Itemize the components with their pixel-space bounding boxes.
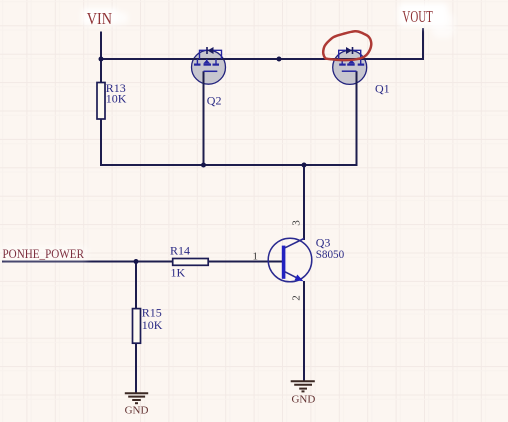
net label PONHE_POWER	[0, 246, 88, 261]
svg-text:GND: GND	[125, 405, 149, 417]
wire Q2 gate lead	[203, 71, 205, 165]
svg-text:1K: 1K	[171, 266, 186, 280]
wire VOUT vertical	[422, 28, 424, 60]
svg-text:GND: GND	[291, 394, 315, 406]
wire Q3 emitter to GND	[303, 281, 305, 381]
junction dot base/R15	[134, 259, 139, 264]
transistor Q1 body circle	[333, 50, 367, 84]
wire R15 to GND	[135, 343, 137, 393]
svg-text:R14: R14	[170, 244, 190, 258]
wire PONHE_POWER to R14	[2, 261, 173, 263]
junction dot Q3 collector on mid bus	[302, 163, 307, 168]
wire R13 bottom lead	[100, 119, 102, 166]
wire top bus VIN to VOUT	[100, 58, 423, 60]
svg-text:VIN: VIN	[87, 9, 112, 28]
white halo behind VOUT	[398, 3, 454, 38]
transistor Q2 internals (P-MOSFET)	[194, 47, 222, 108]
transistor Q3 (NPN S8050)	[268, 236, 344, 282]
svg-text:VOUT: VOUT	[402, 7, 433, 26]
svg-text:PONHE_POWER: PONHE_POWER	[3, 246, 85, 261]
ground symbol right	[291, 381, 315, 391]
wire Q3 collector lead	[303, 165, 305, 240]
wire Q1 gate lead	[356, 71, 358, 166]
ground symbol left	[125, 393, 148, 403]
wire mid bus	[100, 164, 357, 166]
wire down to R15	[135, 262, 137, 309]
transistor Q1 internals (P-MOSFET, mirrored)	[339, 47, 390, 96]
resistor R15	[133, 306, 163, 344]
svg-text:2: 2	[291, 295, 303, 301]
red annotation circle around Q1	[323, 31, 371, 60]
junction dot top bus mid	[277, 57, 282, 62]
white halo behind VIN	[82, 8, 128, 25]
svg-text:3: 3	[291, 220, 303, 226]
svg-text:10K: 10K	[106, 92, 127, 106]
transistor Q2 body circle	[192, 50, 226, 84]
svg-text:S8050: S8050	[316, 247, 345, 261]
wire VIN vertical	[100, 32, 102, 83]
resistor R13	[97, 81, 127, 119]
resistor R14	[170, 244, 208, 280]
svg-text:1: 1	[253, 251, 259, 263]
junction dot Q2 gate on mid bus	[201, 163, 206, 168]
svg-text:Q1: Q1	[375, 82, 390, 96]
wire R14 to Q3 base	[208, 261, 282, 263]
svg-text:Q2: Q2	[207, 94, 222, 108]
svg-text:10K: 10K	[142, 318, 163, 332]
junction dot VIN bus	[99, 57, 104, 62]
